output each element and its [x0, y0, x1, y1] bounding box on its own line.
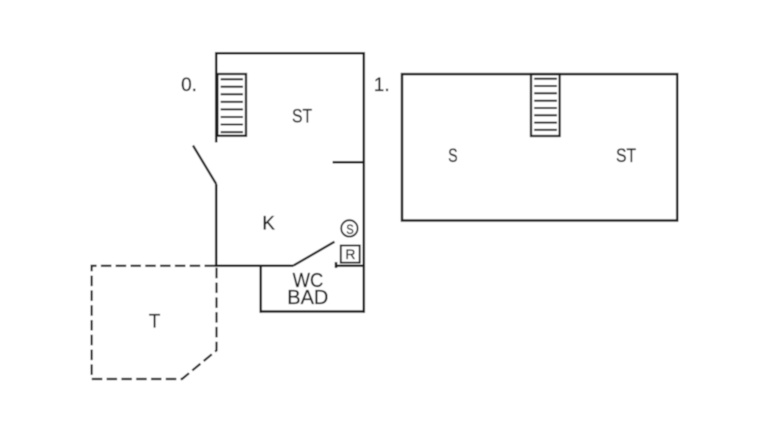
door leaf WC: [294, 242, 335, 266]
svg-text:K: K: [262, 213, 275, 234]
wall bottom WC: [260, 310, 366, 313]
svg-text:S: S: [346, 222, 353, 237]
outlet symbol R: [341, 246, 360, 263]
svg-text:0.: 0.: [181, 75, 197, 96]
wall stub between ST and K: [333, 161, 365, 164]
svg-text:T: T: [149, 311, 161, 332]
svg-text:BAD: BAD: [287, 287, 328, 309]
wall left upper ground floor: [215, 52, 218, 143]
svg-text:R: R: [345, 246, 355, 262]
wall top ground floor: [215, 52, 365, 55]
stair upper floor: [531, 74, 560, 136]
switch symbol S: [341, 220, 357, 237]
door leaf entry: [193, 146, 216, 185]
wall bottom K: [215, 265, 294, 268]
wall left lower ground floor: [215, 184, 218, 267]
svg-text:ST: ST: [616, 145, 636, 167]
svg-text:ST: ST: [292, 105, 312, 127]
wall segment right of WC door with door stop tick: [335, 262, 365, 268]
svg-text:S: S: [448, 145, 458, 166]
wall left WC: [259, 265, 262, 313]
terrace dashed outline: [92, 266, 217, 379]
stair ground floor: [217, 74, 246, 136]
wall right ground floor: [363, 52, 366, 313]
wall outline upper floor: [402, 74, 677, 220]
svg-text:1.: 1.: [374, 75, 390, 96]
